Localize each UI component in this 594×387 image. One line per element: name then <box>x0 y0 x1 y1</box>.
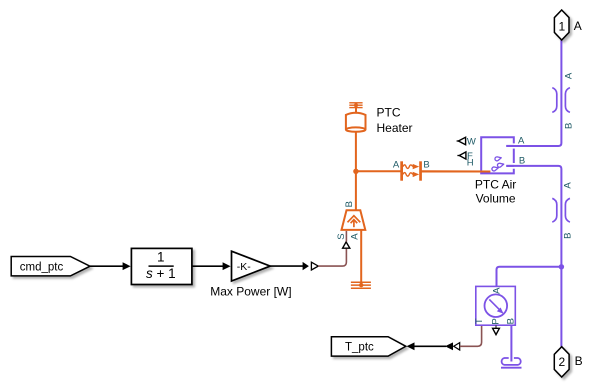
svg-text:Max Power [W]: Max Power [W] <box>210 284 291 298</box>
svg-text:B: B <box>575 354 583 368</box>
svg-text:1: 1 <box>157 250 165 265</box>
svg-text:s + 1: s + 1 <box>146 266 176 281</box>
svg-text:B: B <box>505 318 516 324</box>
svg-text:A: A <box>563 182 574 189</box>
svg-text:B: B <box>563 233 574 239</box>
svg-text:B: B <box>563 123 574 129</box>
svg-text:PTC: PTC <box>377 106 401 120</box>
svg-text:A: A <box>393 160 400 171</box>
svg-text:W: W <box>467 137 476 148</box>
svg-text:-K-: -K- <box>237 261 252 273</box>
svg-text:2: 2 <box>558 355 565 369</box>
svg-text:1: 1 <box>558 19 565 33</box>
svg-text:PTC Air: PTC Air <box>475 178 516 192</box>
svg-text:T: T <box>474 318 485 324</box>
svg-text:B: B <box>423 159 429 170</box>
svg-text:A: A <box>574 19 582 33</box>
svg-text:A: A <box>491 287 502 294</box>
svg-text:cmd_ptc: cmd_ptc <box>20 261 64 273</box>
svg-text:H: H <box>467 158 474 169</box>
svg-text:P: P <box>491 318 502 324</box>
svg-text:Volume: Volume <box>476 192 516 206</box>
svg-text:B: B <box>519 155 525 166</box>
svg-text:S: S <box>336 233 347 239</box>
svg-text:A: A <box>563 72 574 79</box>
svg-text:Heater: Heater <box>377 121 413 135</box>
svg-text:A: A <box>349 233 360 240</box>
svg-text:T_ptc: T_ptc <box>345 342 374 354</box>
svg-text:B: B <box>344 201 355 207</box>
svg-text:A: A <box>518 136 525 147</box>
